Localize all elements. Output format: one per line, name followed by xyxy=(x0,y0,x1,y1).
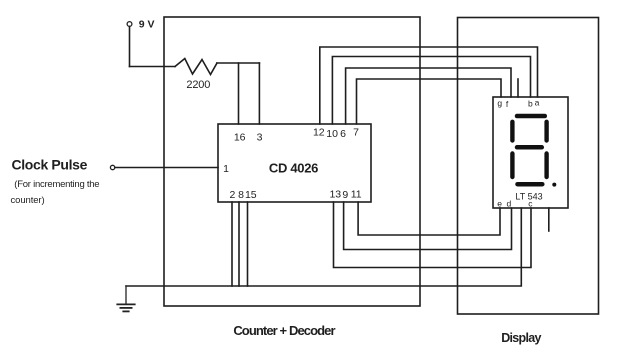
segment b bar xyxy=(544,122,548,141)
wire pin 12 to segment a xyxy=(320,47,538,124)
svg-text:10: 10 xyxy=(326,128,338,140)
wire pin 8 to ground rail xyxy=(238,202,240,286)
svg-text:2: 2 xyxy=(229,189,235,201)
svg-text:2200: 2200 xyxy=(186,79,210,91)
svg-text:d: d xyxy=(507,199,512,209)
terminal clock input xyxy=(110,165,114,169)
svg-text:Clock Pulse: Clock Pulse xyxy=(12,157,88,173)
svg-text:Display: Display xyxy=(501,331,541,345)
segment d bar xyxy=(518,182,543,187)
svg-text:(For incrementing the: (For incrementing the xyxy=(14,179,99,190)
wire pin 13 to segment c xyxy=(334,202,532,268)
svg-text:13: 13 xyxy=(329,189,341,201)
svg-text:6: 6 xyxy=(340,128,346,140)
block Counter + Decoder xyxy=(164,17,420,306)
svg-text:1: 1 xyxy=(223,163,229,175)
svg-text:11: 11 xyxy=(351,189,362,201)
wire pin 7 to segment g xyxy=(357,79,502,124)
svg-text:12: 12 xyxy=(313,127,325,139)
wire stub top xyxy=(517,79,519,97)
svg-text:9: 9 xyxy=(342,189,348,201)
wire pin 9 to segment d xyxy=(344,202,512,250)
svg-text:b: b xyxy=(528,98,533,108)
wire to pin 16 xyxy=(238,63,240,124)
block Display xyxy=(458,18,599,315)
wire 9V to resistor xyxy=(130,66,176,68)
wire pin 15 to ground rail xyxy=(247,202,249,286)
wire to pin 3 xyxy=(258,63,260,124)
svg-text:3: 3 xyxy=(257,132,263,144)
wire pin 10 to segment b xyxy=(332,57,530,125)
wire ground rail to display common xyxy=(126,208,521,286)
svg-text:e: e xyxy=(497,199,502,209)
svg-text:CD 4026: CD 4026 xyxy=(269,161,318,176)
svg-text:a: a xyxy=(535,97,540,107)
terminal 9V xyxy=(127,22,132,27)
segment a bar xyxy=(517,114,545,119)
wire pin 11 to segment e xyxy=(358,202,500,235)
wire stub bottom xyxy=(548,208,550,231)
svg-text:7: 7 xyxy=(353,127,359,139)
segment e bar xyxy=(510,154,514,178)
wire clock to pin 1 xyxy=(115,167,218,169)
segment c bar xyxy=(544,154,548,178)
wire resistor to pin3 xyxy=(217,62,259,64)
svg-text:15: 15 xyxy=(245,189,257,201)
svg-text:9 V: 9 V xyxy=(139,19,155,31)
svg-text:counter): counter) xyxy=(11,195,45,206)
svg-text:Counter + Decoder: Counter + Decoder xyxy=(233,323,335,338)
svg-text:16: 16 xyxy=(234,132,246,144)
segment g bar xyxy=(517,145,542,150)
wire pin 6 to segment f xyxy=(346,68,511,124)
segment f bar xyxy=(510,122,514,141)
svg-text:LT 543: LT 543 xyxy=(515,192,542,202)
display U2 LT543 body xyxy=(493,97,568,208)
op-amp U1 CD4026 body xyxy=(218,124,371,202)
svg-text:8: 8 xyxy=(238,189,244,201)
wire 9V vertical xyxy=(129,27,131,67)
decimal point xyxy=(552,183,556,187)
ground xyxy=(117,286,134,311)
wire pin 2 to ground rail xyxy=(231,202,233,286)
svg-text:g: g xyxy=(497,98,502,108)
resistor R1 xyxy=(175,59,217,75)
